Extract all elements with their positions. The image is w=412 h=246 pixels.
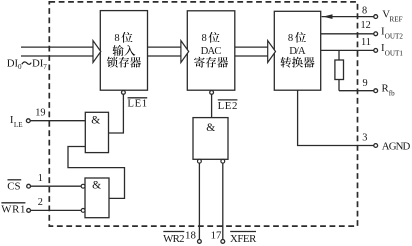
svg-text:19: 19: [35, 108, 45, 119]
terminal pin 18: [198, 240, 202, 244]
inverter bubble U5 input 1: [81, 184, 85, 188]
inverter bubble LE1 at U1 bottom: [122, 91, 126, 95]
svg-text:D/A: D/A: [289, 46, 306, 57]
wire: LE1 bubble to gate U4 output: [109, 94, 124, 133]
svg-text:XFER: XFER: [230, 233, 257, 245]
wire: Rfb (pin 9): [339, 90, 374, 92]
svg-text:LE1: LE1: [127, 97, 147, 109]
terminal ILE (pin 19): [26, 119, 30, 123]
svg-text:WR1: WR1: [1, 204, 25, 216]
terminal pin 11: [374, 49, 378, 53]
terminal pin 12: [374, 32, 378, 36]
bus wire: U1 to U2: [148, 47, 182, 56]
svg-text:0: 0: [18, 63, 22, 71]
svg-text:OUT2: OUT2: [385, 33, 404, 41]
block U3: 8-bit D/A converter (8位D/A转换器): [274, 11, 320, 90]
svg-text:9: 9: [363, 78, 368, 89]
terminal pin 9: [374, 89, 378, 93]
arrowhead on VREF wire: [323, 14, 333, 19]
svg-text:LE: LE: [14, 121, 23, 129]
bus arrowhead into U2: [181, 41, 189, 63]
svg-text:CS: CS: [7, 181, 20, 193]
wire: AGND (pin 3) from U3 bottom: [298, 90, 374, 145]
AND gate U5 (&) for CS/WR1: [85, 178, 109, 218]
svg-text:DI: DI: [7, 58, 19, 70]
wire: WR2 (pin 18) to U6: [198, 163, 200, 239]
svg-text:fb: fb: [389, 90, 395, 98]
svg-text:1: 1: [38, 173, 43, 184]
bus arrowhead into U3: [268, 41, 276, 63]
svg-text:LE2: LE2: [218, 100, 238, 112]
wire: U5 output to U4 second input: [68, 147, 125, 199]
svg-text:DI: DI: [32, 58, 44, 70]
svg-text:18: 18: [185, 230, 196, 242]
svg-text:AGND: AGND: [382, 140, 411, 152]
block U1: 8-bit input latch (8位输入锁存器): [100, 11, 147, 91]
terminal CS (pin 1): [27, 184, 31, 188]
svg-text:2: 2: [38, 197, 43, 208]
wire: IOUT1 (pin 11): [321, 49, 374, 51]
AND gate U6 (&) for LE2: [193, 118, 228, 160]
svg-text:8: 8: [362, 5, 367, 16]
svg-text:3: 3: [362, 133, 367, 144]
wire: VREF (pin 8) into U3: [322, 16, 374, 18]
svg-text:REF: REF: [390, 16, 403, 24]
terminal pin 3: [374, 144, 378, 148]
block U2: 8-bit DAC register (8位DAC寄存器): [187, 11, 235, 90]
wire: CS to U5: [31, 185, 82, 187]
svg-text:OUT1: OUT1: [385, 49, 404, 57]
bus wire: DI0~DI7 input data bus: [21, 47, 93, 56]
bus arrowhead into U1: [93, 41, 101, 63]
svg-text:17: 17: [211, 230, 222, 242]
svg-text:DAC: DAC: [201, 46, 222, 57]
inverter bubble LE2 at U2 bottom: [210, 91, 214, 95]
AND gate U4 (&) for LE1: [85, 112, 108, 152]
wire: IOUT2 (pin 12): [321, 33, 374, 35]
svg-text:8: 8: [288, 33, 293, 44]
svg-text:8: 8: [114, 33, 119, 44]
terminal WR1 (pin 2): [27, 209, 31, 213]
terminal pin 17: [221, 240, 225, 244]
wire: ILE to U4 input: [30, 120, 85, 122]
svg-text:&: &: [92, 180, 101, 192]
wire: LE2 bubble to gate U6: [211, 94, 213, 117]
inverter bubble U6 input right: [221, 159, 225, 163]
inverter bubble U6 input left: [198, 159, 202, 163]
svg-text:8: 8: [201, 33, 206, 44]
svg-text:12: 12: [361, 20, 371, 31]
bus wire: U2 to U3: [235, 47, 268, 56]
svg-text:&: &: [206, 122, 215, 134]
wire: WR1 to U5: [31, 209, 82, 211]
svg-text:WR2: WR2: [163, 233, 184, 245]
terminal pin 8: [374, 15, 378, 19]
IC boundary dashed border: [49, 2, 357, 226]
wire: XFER (pin 17) to U6: [222, 163, 224, 239]
svg-text:7: 7: [43, 63, 47, 71]
svg-text:11: 11: [361, 37, 371, 48]
resistor Rfb body: [338, 50, 340, 60]
svg-text:&: &: [91, 114, 100, 126]
inverter bubble U5 input 2: [81, 209, 85, 213]
